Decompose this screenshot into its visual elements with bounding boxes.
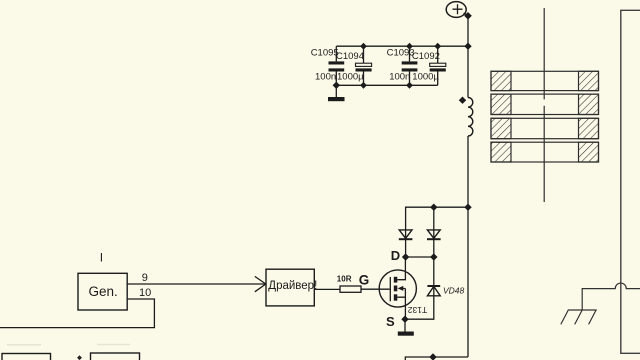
wire: bottom net <box>405 357 468 360</box>
channel segment drain <box>394 277 398 283</box>
node dot bottom rail C1093 <box>407 83 412 88</box>
driver box <box>266 269 314 306</box>
node dot S <box>402 316 408 322</box>
svg-text:G: G <box>359 273 370 288</box>
wire: main vertical from coil to bottom corner <box>467 136 469 357</box>
right big box <box>621 10 640 353</box>
ground bar under C1095 <box>328 85 345 101</box>
transformer core center line <box>543 8 545 202</box>
diode VD48 <box>405 257 440 319</box>
node dot bottom rail C1095 <box>334 83 340 89</box>
svg-text:VD48: VD48 <box>443 285 465 295</box>
channel segment source <box>394 294 398 300</box>
node dot bottom net <box>430 354 436 360</box>
svg-text:T132: T132 <box>408 305 428 315</box>
channel segment body <box>394 286 398 292</box>
svg-text:Gen.: Gen. <box>89 284 118 299</box>
resistor 10R <box>340 286 361 292</box>
wire 10 return <box>0 299 154 328</box>
node: + junction dot <box>465 13 471 19</box>
node: inductor polarity dot <box>460 97 466 103</box>
wire gate <box>361 288 390 290</box>
transformer winding row 4 <box>491 142 599 162</box>
wire 9 <box>127 283 266 285</box>
faint label remnant 1 <box>7 344 41 346</box>
node dot top rail main line <box>465 43 471 49</box>
node dot top rail C1092 <box>435 44 440 49</box>
node dot D left <box>403 254 409 260</box>
svg-text:10: 10 <box>139 287 151 299</box>
body arrow <box>398 286 404 291</box>
svg-text:C1092: C1092 <box>412 51 440 62</box>
svg-text:100n: 100n <box>315 72 336 83</box>
node dot top rail C1093 <box>407 44 412 49</box>
bottom-left box 2 <box>91 353 140 360</box>
svg-text:1000µ: 1000µ <box>337 72 364 83</box>
faint label remnant 2 <box>97 344 130 346</box>
ground (GOST) <box>561 310 597 324</box>
gate bar <box>389 277 391 301</box>
node dot D right <box>431 254 437 260</box>
node dot between boxes <box>78 356 81 359</box>
capacitor C1092 <box>430 46 446 85</box>
node dot top rail C1094 <box>361 44 366 49</box>
svg-text:D: D <box>391 248 400 263</box>
node dot diode rail main line <box>465 204 471 210</box>
wire: D rail <box>406 256 434 258</box>
capacitor C1094 <box>356 46 372 85</box>
diode VD47 (right top) <box>427 207 441 257</box>
transformer winding row 2 <box>491 94 599 114</box>
wire: main vertical from + to coil <box>467 16 469 98</box>
svg-text:C1095: C1095 <box>311 48 339 59</box>
source ground bar <box>398 319 414 336</box>
Gen box <box>78 273 127 310</box>
svg-text:C1094: C1094 <box>336 51 364 62</box>
svg-text:Драйвер!: Драйвер! <box>268 280 317 292</box>
MOSFET T132 <box>379 257 416 319</box>
transformer winding row 1 <box>491 71 599 90</box>
svg-text:C1093: C1093 <box>387 48 415 59</box>
node dot bottom rail C1094 <box>361 83 366 88</box>
ground wire with hop <box>582 283 640 310</box>
inductor L <box>468 98 473 137</box>
transformer winding row 3 <box>491 118 599 138</box>
power terminal + <box>446 2 468 18</box>
body + source lead <box>397 289 405 320</box>
wire driver to resistor <box>314 288 340 290</box>
diode VD46 (left top) <box>399 230 413 257</box>
svg-text:I: I <box>100 251 103 265</box>
wire: diode top rail <box>406 207 468 239</box>
svg-text:10R: 10R <box>337 275 352 284</box>
svg-text:100n: 100n <box>389 72 410 83</box>
svg-text:S: S <box>386 314 395 329</box>
svg-text:9: 9 <box>142 272 148 284</box>
arrow into driver <box>255 276 266 291</box>
capacitor C1093 <box>402 46 418 85</box>
node dot diode rail mid <box>431 204 437 210</box>
capacitor C1095 <box>329 46 345 85</box>
drain lead <box>397 257 405 280</box>
wire: capacitor top rail <box>336 45 468 47</box>
wire: capacitor bottom rail <box>336 84 437 86</box>
bottom-left box 1 <box>2 354 51 360</box>
svg-text:1000µ: 1000µ <box>412 72 439 83</box>
